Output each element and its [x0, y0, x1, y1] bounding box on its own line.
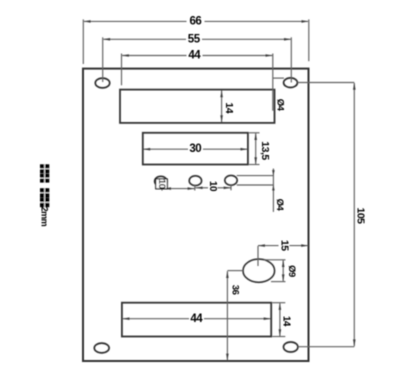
svg-text:44: 44: [188, 49, 201, 61]
svg-text:10: 10: [156, 179, 167, 189]
svg-text:36: 36: [229, 285, 240, 295]
svg-text:44: 44: [190, 313, 203, 325]
svg-text:10: 10: [207, 181, 218, 192]
svg-text:66: 66: [190, 15, 202, 27]
svg-text:13,5: 13,5: [259, 141, 271, 160]
svg-text:Ø4: Ø4: [274, 199, 285, 212]
svg-text:105: 105: [354, 207, 366, 224]
svg-text:Ø4: Ø4: [275, 99, 286, 112]
svg-text:2mm: 2mm: [40, 207, 50, 227]
svg-text:30: 30: [189, 143, 201, 155]
svg-text:55: 55: [188, 34, 201, 46]
svg-text:15: 15: [279, 240, 291, 251]
svg-text:14: 14: [281, 316, 292, 327]
svg-text:14: 14: [223, 102, 235, 113]
svg-text:Ø9: Ø9: [286, 265, 297, 277]
